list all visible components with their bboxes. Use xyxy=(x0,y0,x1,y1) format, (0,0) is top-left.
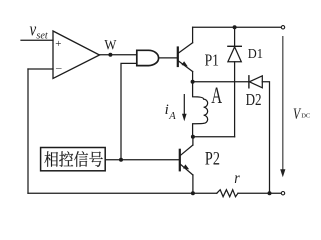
node dot P1 emitter junction xyxy=(191,80,195,84)
node dot coil bottom junction xyxy=(191,135,195,139)
node dot P2 emitter rail xyxy=(191,191,195,195)
wire coil bottom node to D1 xyxy=(193,136,235,138)
wire left feedback vertical xyxy=(27,69,29,193)
wire D2 to right branch down xyxy=(262,82,269,193)
svg-text:D1: D1 xyxy=(248,46,263,62)
wire node A horizontal to D2 xyxy=(193,81,249,83)
label VDC xyxy=(293,106,301,123)
wire top rail xyxy=(193,26,282,28)
resistor r xyxy=(217,190,238,197)
op-amp U1 xyxy=(53,31,100,79)
terminal bottom right xyxy=(281,192,284,195)
label P1 xyxy=(205,51,219,70)
wire P1 collector to top rail xyxy=(192,27,194,42)
svg-text:P2: P2 xyxy=(205,148,220,169)
box phase control signal xyxy=(41,148,106,171)
label P2 xyxy=(205,148,220,169)
diode D2 xyxy=(248,76,250,88)
svg-text:A: A xyxy=(211,84,222,109)
svg-text:W: W xyxy=(104,37,116,53)
svg-text:–: – xyxy=(55,62,62,74)
svg-text:P1: P1 xyxy=(205,51,219,70)
terminal top right xyxy=(281,26,284,29)
transistor P1 emitter arrowhead xyxy=(182,61,188,66)
transistor P2 xyxy=(179,150,181,171)
wire vset input xyxy=(21,39,53,41)
wire P1 emitter down xyxy=(192,72,194,82)
svg-text:+: + xyxy=(55,38,61,50)
svg-text:r: r xyxy=(234,170,240,187)
label vset xyxy=(30,19,37,40)
label D1 xyxy=(248,46,263,62)
wire op-amp output to AND xyxy=(100,54,137,56)
svg-text:D2: D2 xyxy=(246,92,262,110)
node dot AND lower input xyxy=(119,158,123,162)
svg-text:V: V xyxy=(293,106,301,123)
svg-text:set: set xyxy=(36,30,48,41)
wire P2 emitter to bottom rail xyxy=(192,175,194,193)
wire AND lower input xyxy=(121,63,137,159)
wire inverting input xyxy=(28,68,53,70)
and gate G1 xyxy=(137,50,159,65)
label r xyxy=(234,170,240,187)
svg-text:DC: DC xyxy=(301,113,310,120)
wire AND output to P1 base xyxy=(159,57,178,59)
iA current arrow xyxy=(183,94,185,114)
wire P2 collector up to node xyxy=(192,137,194,145)
node W dot xyxy=(108,53,112,57)
label D2 xyxy=(246,92,262,110)
node dot D2 branch rail xyxy=(268,191,272,195)
VDC voltage arrow line xyxy=(282,36,284,170)
svg-text:i: i xyxy=(165,102,169,118)
transistor P2 emitter arrowhead xyxy=(183,164,189,169)
diode D1 xyxy=(234,27,236,46)
VDC voltage arrowhead xyxy=(280,169,285,177)
svg-text:A: A xyxy=(168,111,176,122)
wire box to P2 base xyxy=(105,159,179,161)
node dot top rail D1 xyxy=(233,25,237,29)
label W xyxy=(104,37,116,53)
label A inductor xyxy=(211,84,222,109)
transistor P1 xyxy=(177,48,179,67)
wire bottom rail xyxy=(28,192,217,194)
inductor A coil xyxy=(193,82,208,137)
label phase control text 相控信号 xyxy=(44,151,102,167)
